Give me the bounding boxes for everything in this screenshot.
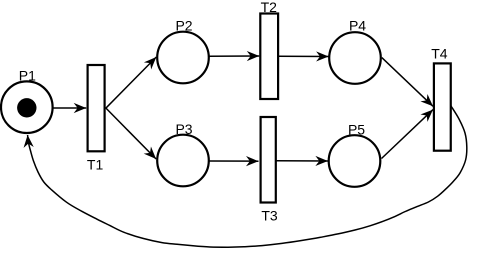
- wire P5 to T4: [382, 110, 434, 159]
- svg-text:P4: P4: [349, 18, 366, 34]
- svg-text:T2: T2: [261, 0, 278, 15]
- place P2: [157, 32, 209, 84]
- transition T1: [88, 65, 105, 151]
- wire P3 to T3: [209, 160, 259, 162]
- svg-text:T4: T4: [431, 46, 448, 62]
- wire T4 to P1 (return arc): [28, 106, 467, 248]
- place P1: [1, 81, 53, 133]
- transition T2: [260, 14, 278, 100]
- wire T1 to P3: [106, 108, 156, 159]
- wire P4 to T4: [382, 58, 433, 107]
- svg-text:P2: P2: [175, 18, 192, 34]
- svg-text:P5: P5: [348, 121, 365, 137]
- svg-text:P3: P3: [175, 121, 192, 137]
- place P3: [157, 135, 209, 187]
- wire P1 to T1: [53, 107, 87, 109]
- wire P2 to T2: [209, 55, 260, 57]
- wire T3 to P5: [276, 160, 328, 162]
- token in P1: [17, 98, 36, 117]
- svg-text:P1: P1: [19, 68, 36, 84]
- place P5: [329, 135, 381, 187]
- wire T1 to P2: [106, 57, 157, 108]
- transition T3: [261, 117, 276, 203]
- transition T4: [434, 63, 451, 150]
- wire T2 to P4: [278, 55, 329, 57]
- place P4: [329, 32, 381, 84]
- svg-text:T3: T3: [261, 207, 278, 223]
- svg-text:T1: T1: [87, 156, 104, 172]
